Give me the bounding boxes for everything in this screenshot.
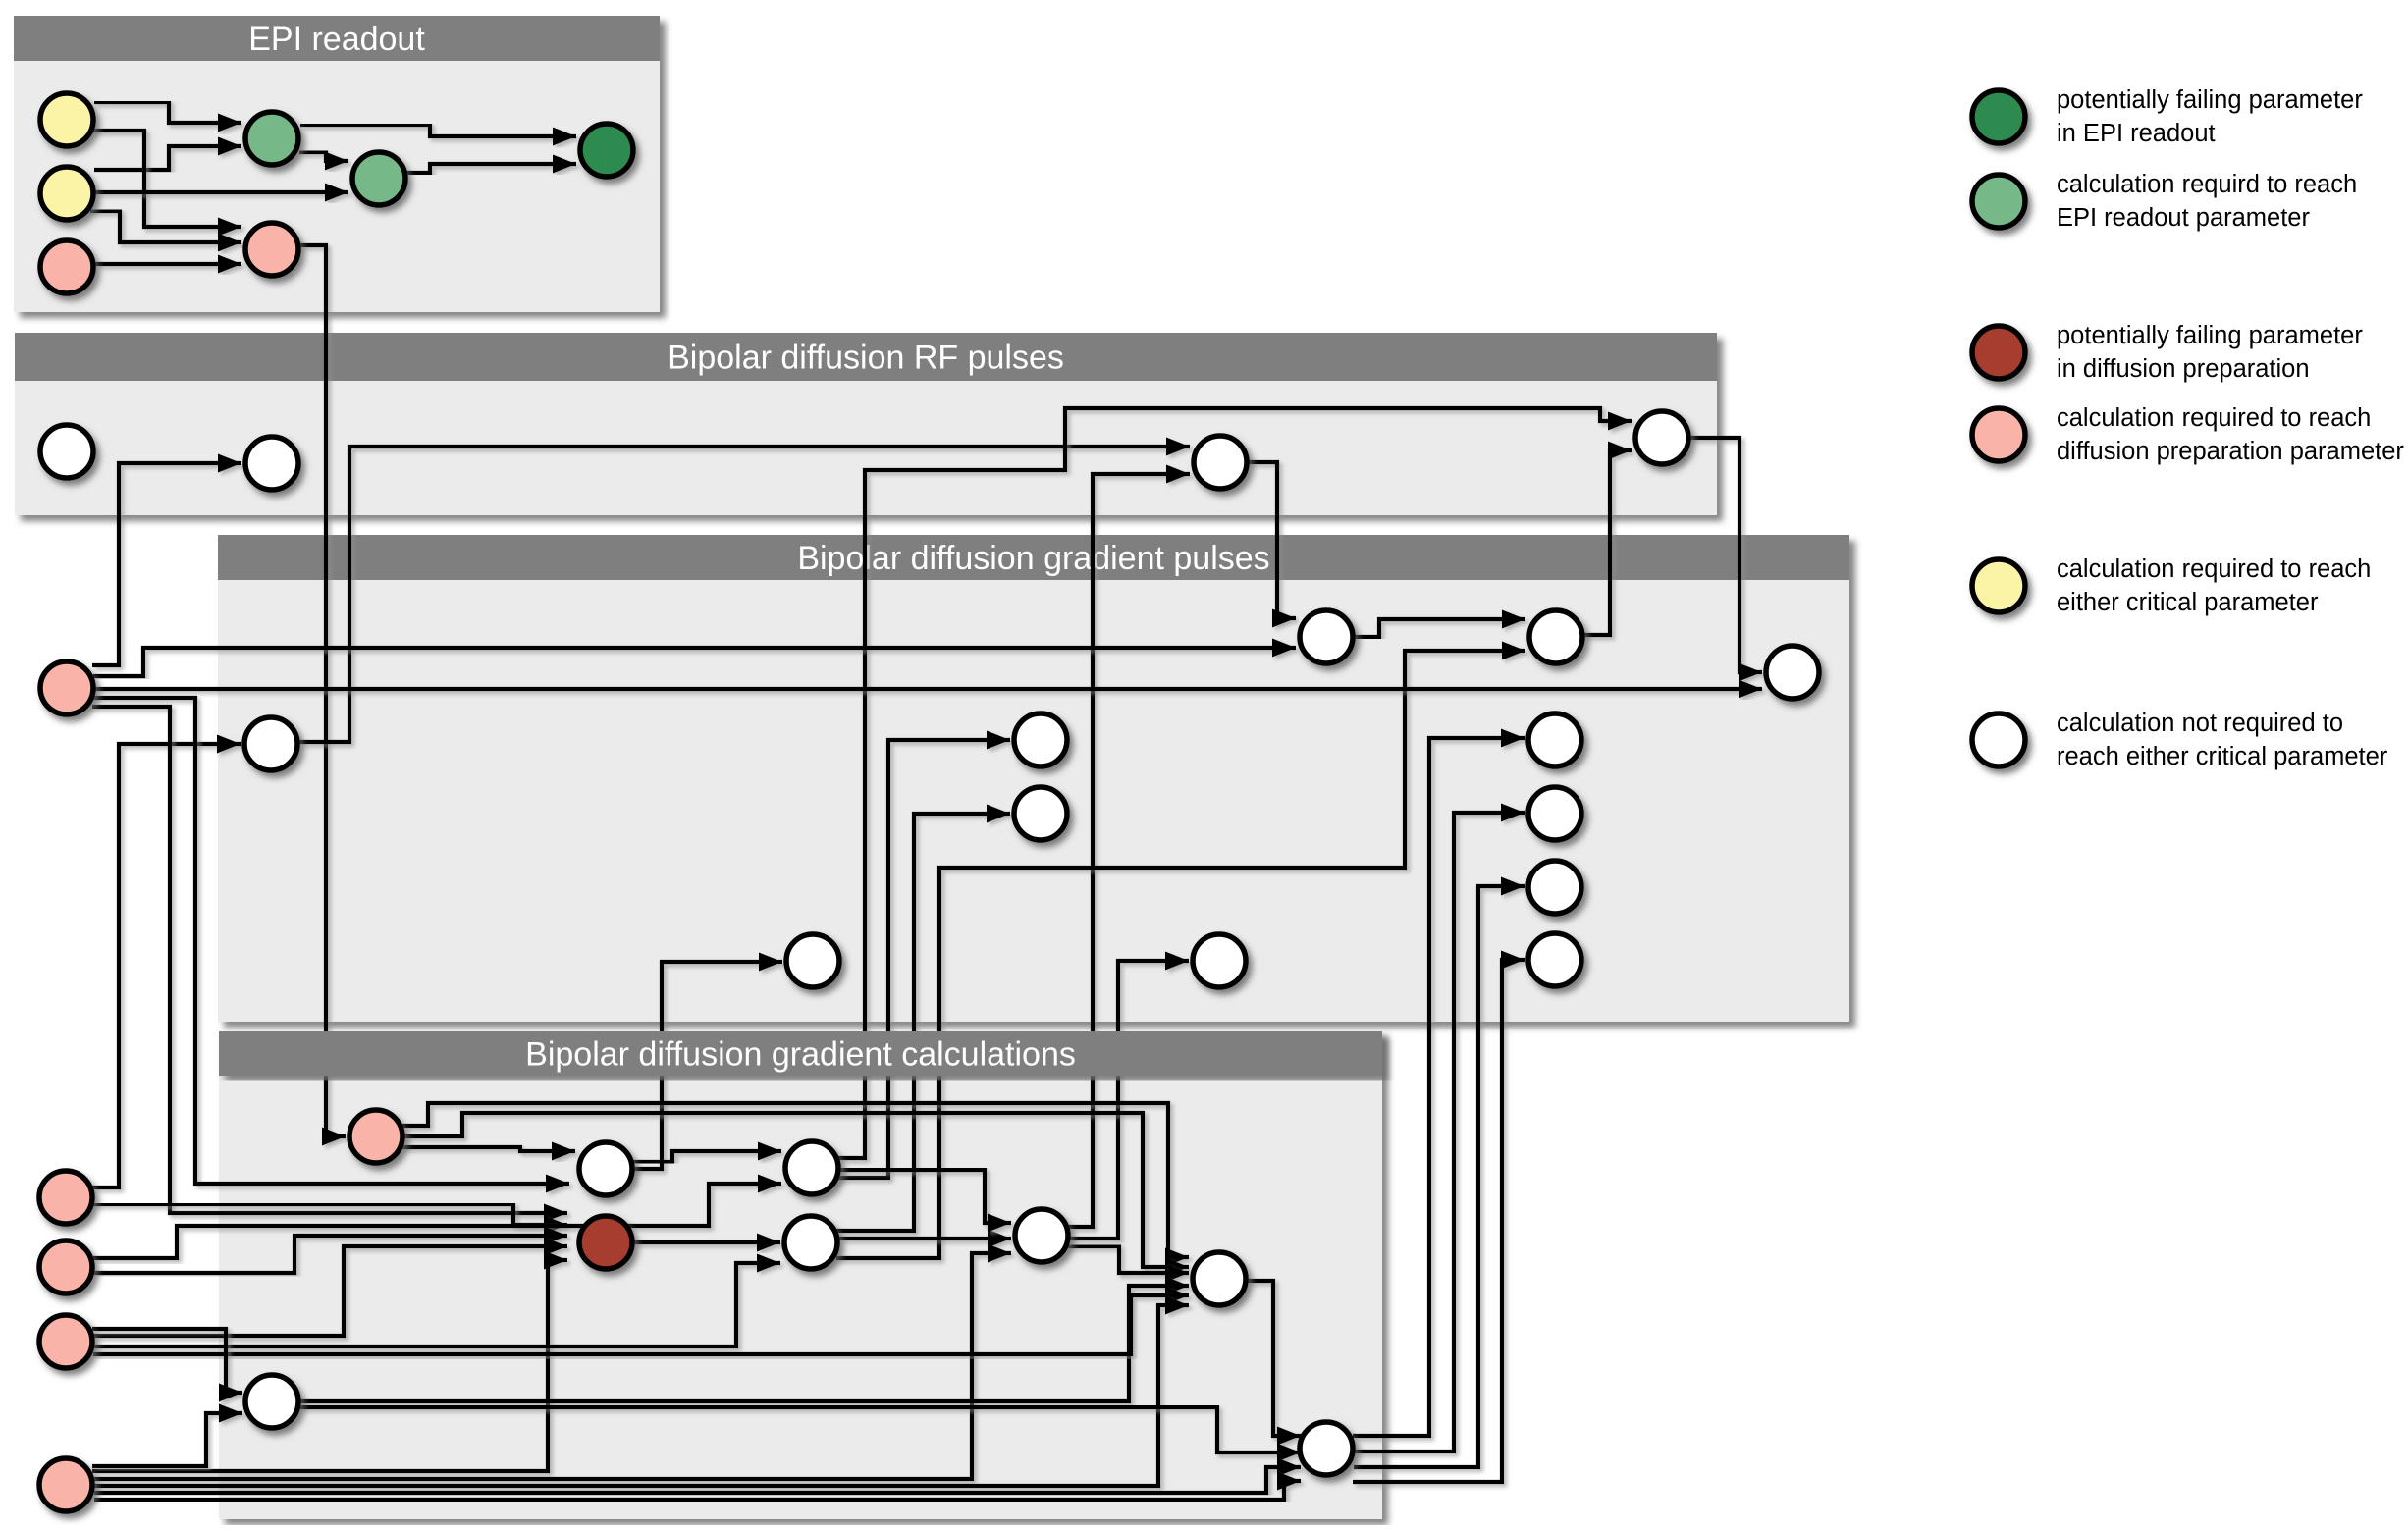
svg-text:EPI readout: EPI readout xyxy=(248,21,425,58)
svg-text:reach either critical paramete: reach either critical parameter xyxy=(2057,743,2388,770)
svg-text:Bipolar diffusion gradient pul: Bipolar diffusion gradient pulses xyxy=(797,540,1269,577)
svg-text:Bipolar diffusion RF pulses: Bipolar diffusion RF pulses xyxy=(668,340,1064,377)
svg-text:in diffusion preparation: in diffusion preparation xyxy=(2057,355,2310,383)
svg-text:calculation required to reach: calculation required to reach xyxy=(2057,404,2371,432)
svg-text:potentially failing parameter: potentially failing parameter xyxy=(2057,322,2363,349)
svg-text:EPI readout parameter: EPI readout parameter xyxy=(2057,204,2310,232)
svg-text:potentially failing parameter: potentially failing parameter xyxy=(2057,86,2363,114)
svg-text:calculation not required to: calculation not required to xyxy=(2057,710,2343,737)
svg-text:either critical parameter: either critical parameter xyxy=(2057,589,2319,616)
svg-text:calculation requird to reach: calculation requird to reach xyxy=(2057,171,2357,198)
svg-text:in EPI readout: in EPI readout xyxy=(2057,120,2216,147)
svg-text:calculation required to reach: calculation required to reach xyxy=(2057,555,2371,583)
svg-text:Bipolar diffusion gradient cal: Bipolar diffusion gradient calculations xyxy=(525,1036,1076,1074)
svg-text:diffusion preparation paramete: diffusion preparation parameter xyxy=(2057,438,2404,465)
